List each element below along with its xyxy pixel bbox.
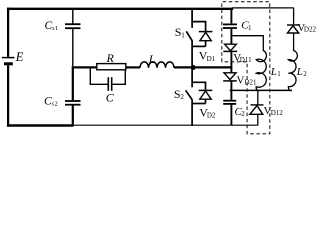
svg-text:1: 1 <box>248 24 252 32</box>
svg-text:V: V <box>237 74 245 86</box>
svg-text:L: L <box>148 52 156 66</box>
svg-text:2: 2 <box>241 110 245 118</box>
svg-text:D2: D2 <box>207 112 216 120</box>
svg-text:L: L <box>270 66 277 78</box>
svg-text:C: C <box>106 91 115 105</box>
svg-text:D21: D21 <box>245 78 258 86</box>
svg-text:D11: D11 <box>240 56 252 64</box>
svg-text:L: L <box>296 66 303 78</box>
svg-text:1: 1 <box>277 70 281 78</box>
svg-text:D22: D22 <box>304 26 317 34</box>
svg-text:R: R <box>106 51 115 65</box>
svg-text:2: 2 <box>180 93 184 101</box>
svg-text:D12: D12 <box>271 109 284 117</box>
svg-text:1: 1 <box>181 31 185 39</box>
svg-text:2: 2 <box>303 70 307 78</box>
svg-text:2: 2 <box>55 101 58 108</box>
svg-text:1: 1 <box>55 25 58 32</box>
svg-text:E: E <box>15 50 24 64</box>
svg-text:D1: D1 <box>207 55 216 63</box>
